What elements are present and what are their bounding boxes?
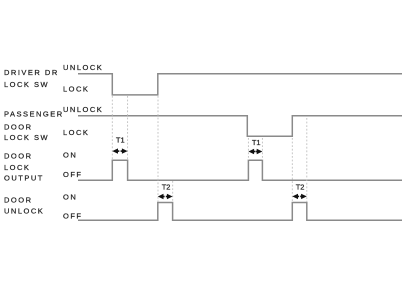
svg-text:OUTPUT: OUTPUT [4, 174, 44, 183]
dashed guide line at unlock-pulse2 end x=306.8 [306, 118, 308, 202]
svg-text:OFF: OFF [63, 170, 83, 179]
svg-text:LOCK SW: LOCK SW [4, 133, 49, 142]
waveform DOOR LOCK OUTPUT [78, 160, 402, 180]
dashed guide line at row1 rise x=158 [157, 96, 159, 202]
arrow T2 second [292, 194, 307, 199]
svg-text:LOCK: LOCK [63, 85, 89, 94]
svg-text:LOCK SW: LOCK SW [4, 80, 49, 89]
label DOOR UNLOCK [4, 196, 44, 216]
dashed guide line at row2 rise x=292.3 [291, 138, 293, 202]
waveform DOOR UNLOCK [78, 203, 402, 221]
svg-text:OFF: OFF [63, 211, 83, 220]
svg-text:UNLOCK: UNLOCK [4, 206, 44, 215]
label DRIVER DR LOCK SW [4, 68, 59, 89]
arrow T2 first [158, 194, 173, 199]
svg-text:DOOR: DOOR [4, 196, 33, 205]
svg-text:UNLOCK: UNLOCK [63, 105, 103, 114]
waveform PASSENGER DOOR LOCK SW [78, 116, 402, 137]
svg-text:UNLOCK: UNLOCK [63, 63, 103, 72]
svg-text:PASSENGER: PASSENGER [4, 109, 64, 118]
dashed guide line at row2 fall x=248.4 [247, 138, 249, 160]
waveform DRIVER DR LOCK SW [78, 74, 402, 95]
svg-text:T2: T2 [296, 182, 305, 191]
dashed guide line at unlock-pulse1 end x=172.7 [172, 181, 174, 202]
svg-text:ON: ON [63, 151, 77, 160]
svg-text:T1: T1 [116, 135, 125, 144]
label PASSENGER DOOR LOCK SW [4, 109, 64, 142]
arrow T1 first [112, 148, 127, 153]
svg-text:DOOR: DOOR [4, 122, 33, 131]
svg-text:DOOR: DOOR [4, 151, 33, 160]
svg-text:T1: T1 [252, 138, 261, 147]
svg-text:LOCK: LOCK [4, 163, 30, 172]
dashed guide line at row1 fall x=112.3 [111, 96, 113, 160]
dashed guide line at lock-pulse1 end x=127.6 [127, 96, 129, 160]
dashed guide line at lock-pulse2 end x=262.4 [261, 138, 263, 160]
svg-text:LOCK: LOCK [63, 128, 89, 137]
svg-text:ON: ON [63, 193, 77, 202]
svg-text:T2: T2 [162, 182, 171, 191]
svg-text:DRIVER DR: DRIVER DR [4, 68, 59, 77]
label DOOR LOCK OUTPUT [4, 151, 44, 182]
arrow T1 second [248, 149, 262, 154]
